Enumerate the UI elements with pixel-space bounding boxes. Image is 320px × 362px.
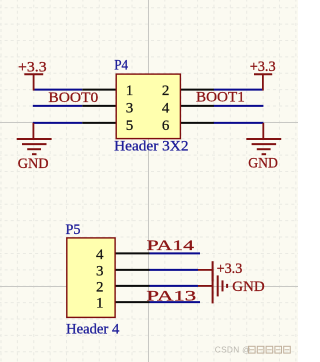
svg-text:GND: GND [232, 279, 264, 295]
svg-text:5: 5 [126, 118, 134, 134]
svg-text:4: 4 [162, 101, 170, 117]
svg-text:3: 3 [96, 263, 104, 279]
svg-text:3: 3 [126, 101, 134, 117]
svg-text:P5: P5 [66, 222, 81, 238]
svg-text:BOOT1: BOOT1 [196, 90, 245, 106]
svg-text:CSDN @: CSDN @ [215, 345, 251, 355]
svg-text:BOOT0: BOOT0 [48, 90, 98, 106]
svg-text:2: 2 [162, 83, 170, 99]
svg-text:4: 4 [96, 247, 104, 263]
svg-text:1: 1 [126, 83, 134, 99]
svg-text:PA13: PA13 [146, 289, 196, 305]
svg-text:1: 1 [96, 296, 104, 312]
svg-text:+3.3: +3.3 [18, 60, 47, 76]
svg-text:2: 2 [96, 279, 104, 295]
svg-text:+3.3: +3.3 [217, 261, 243, 277]
svg-text:Header 4: Header 4 [66, 321, 120, 337]
svg-text:GND: GND [248, 155, 278, 171]
svg-text:6: 6 [162, 118, 170, 134]
svg-text:GND: GND [18, 156, 49, 172]
svg-text:+3.3: +3.3 [250, 59, 276, 75]
svg-text:PA14: PA14 [147, 238, 195, 254]
svg-text:P4: P4 [114, 58, 129, 74]
svg-text:Header 3X2: Header 3X2 [114, 138, 188, 154]
